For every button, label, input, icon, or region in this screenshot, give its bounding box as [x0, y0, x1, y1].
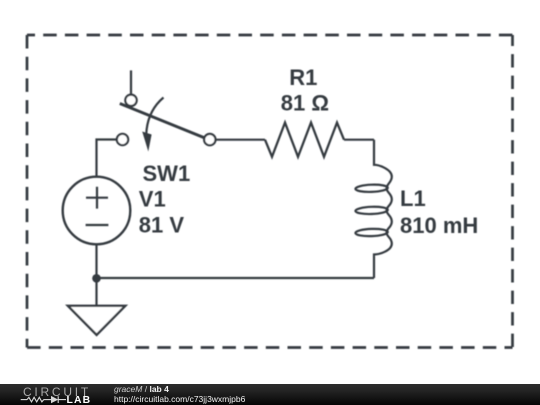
inductor L1 coil spine	[374, 140, 392, 278]
switch SW1 top terminal circle	[125, 95, 136, 106]
switch SW1 left terminal circle	[117, 134, 128, 145]
switch SW1 arrow head	[142, 132, 151, 152]
wire V1 top to switch left terminal	[97, 140, 117, 177]
logo schematic: wire + resistor + diode	[21, 396, 66, 403]
inductor L1 loop 1	[355, 184, 388, 192]
junction node dot	[92, 274, 101, 283]
footer bar	[0, 384, 540, 405]
switch SW1 top stub wire	[130, 70, 132, 94]
inductor L1 loop 3	[355, 228, 388, 236]
dashed border frame left edge	[26, 35, 29, 348]
dashed border frame top edge	[27, 34, 513, 37]
voltage source V1 circle	[63, 177, 131, 245]
svg-text:810 mH: 810 mH	[400, 213, 478, 238]
ground stem wire	[95, 278, 97, 306]
svg-text:81 Ω: 81 Ω	[281, 90, 329, 115]
dashed border frame bottom edge	[27, 346, 513, 349]
resistor R1 zigzag	[265, 123, 344, 157]
switch SW1 lever bar	[120, 104, 205, 138]
footer line 1	[114, 385, 169, 394]
V1 minus sign	[86, 224, 109, 226]
svg-text:SW1: SW1	[143, 161, 191, 186]
svg-text:V1: V1	[139, 187, 166, 212]
dashed border frame right edge	[511, 35, 514, 348]
footer line 2	[114, 395, 245, 404]
svg-text:81 V: 81 V	[139, 212, 185, 237]
V1 plus sign	[86, 187, 108, 209]
ground symbol triangle	[68, 306, 125, 335]
inductor L1 loop 2	[355, 206, 388, 214]
svg-text:L1: L1	[400, 186, 426, 211]
switch SW1 right terminal circle	[204, 134, 215, 145]
switch SW1 actuation arrow arc	[146, 98, 163, 134]
bottom wire inductor to source	[97, 277, 375, 279]
wire resistor to inductor top	[344, 139, 374, 141]
svg-text:LAB: LAB	[67, 395, 92, 405]
wire V1 bottom to junction	[95, 244, 97, 278]
wire switch right to resistor	[216, 139, 266, 141]
CircuitLab logo	[0, 384, 110, 405]
svg-text:R1: R1	[289, 65, 317, 90]
logo diode triangle	[51, 396, 58, 403]
